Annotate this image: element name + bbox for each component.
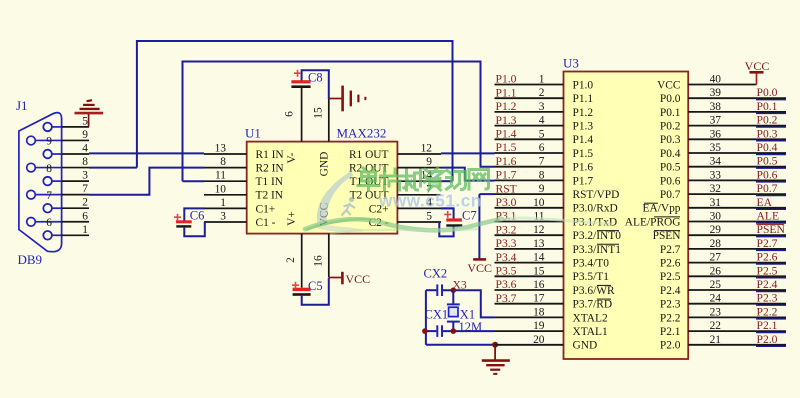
- watermark text zi: [425, 168, 444, 190]
- svg-text:30: 30: [710, 211, 722, 223]
- svg-text:22: 22: [710, 320, 722, 332]
- watermark text dan: [358, 168, 379, 190]
- svg-text:35: 35: [710, 142, 722, 154]
- svg-text:P2.3: P2.3: [660, 299, 681, 311]
- svg-text:PSEN: PSEN: [653, 230, 681, 242]
- svg-text:7: 7: [82, 183, 88, 195]
- U3 pin 2 (P1.1) stub: [495, 97, 564, 99]
- svg-text:P2.3: P2.3: [757, 292, 778, 305]
- wire DB9 pin4 row to R1 IN: [89, 152, 204, 154]
- U3 pin 28 (P2.7) stub: [688, 248, 758, 250]
- U1 pin 15 (GND) top stub: [328, 99, 330, 142]
- svg-text:P0.6: P0.6: [757, 168, 778, 181]
- svg-text:P1.4: P1.4: [496, 128, 517, 141]
- svg-text:EA/Vpp: EA/Vpp: [643, 203, 681, 215]
- capacitor CX1 plates: [436, 325, 438, 337]
- svg-text:P0.2: P0.2: [660, 121, 681, 133]
- U1 pin 4 (C2+) stub: [397, 207, 441, 209]
- U3 pin 31 (EA/Vpp) stub: [688, 207, 758, 209]
- svg-text:8: 8: [539, 169, 545, 181]
- svg-text:27: 27: [710, 252, 722, 264]
- svg-text:P1.3: P1.3: [573, 121, 594, 133]
- svg-text:36: 36: [710, 128, 722, 140]
- wire C2+ tail: [441, 207, 454, 209]
- svg-text:C6: C6: [190, 209, 205, 223]
- watermark text ji: [402, 170, 421, 190]
- svg-text:P1.7: P1.7: [573, 175, 594, 187]
- svg-text:9: 9: [539, 183, 545, 195]
- crystal X1: [452, 290, 454, 304]
- U1 pin 5 (C2 -) stub: [397, 221, 441, 223]
- U3 pin 9 (RST/VPD) stub: [495, 193, 564, 195]
- svg-text:24: 24: [710, 293, 722, 305]
- svg-text:10: 10: [215, 183, 227, 195]
- svg-text:8: 8: [46, 163, 52, 175]
- DB9 pin 7 stub: [62, 194, 89, 196]
- svg-text:P2.4: P2.4: [660, 285, 681, 297]
- svg-text:15: 15: [533, 265, 545, 277]
- svg-text:26: 26: [710, 265, 722, 277]
- svg-text:40: 40: [710, 74, 722, 86]
- DB9 pin 4 circle: [43, 150, 52, 159]
- svg-text:J1: J1: [16, 98, 28, 113]
- wire T1 IN joint: [183, 180, 205, 182]
- svg-text:5: 5: [426, 211, 432, 223]
- svg-text:31: 31: [710, 197, 722, 209]
- U3 pin 22 (P2.1) stub: [688, 330, 758, 332]
- svg-text:R2 IN: R2 IN: [256, 163, 284, 175]
- svg-text:T2 IN: T2 IN: [256, 190, 284, 202]
- svg-text:P0.2: P0.2: [757, 114, 778, 127]
- wire DB9 pin7 row to R2 IN: [89, 168, 204, 195]
- wire C6 bottom hook to C1-: [184, 222, 205, 236]
- svg-text:DB9: DB9: [18, 252, 43, 267]
- svg-text:13: 13: [533, 238, 545, 250]
- capacitor C6: [184, 208, 205, 220]
- U3 pin 4 (P1.3) stub: [495, 125, 564, 127]
- svg-text:8: 8: [220, 156, 226, 168]
- svg-text:P1.5: P1.5: [573, 148, 594, 160]
- svg-text:U1: U1: [245, 126, 261, 141]
- svg-text:CX2: CX2: [424, 267, 448, 281]
- svg-text:P2.7: P2.7: [660, 244, 681, 256]
- svg-text:P0.5: P0.5: [757, 155, 778, 168]
- DB9 pin 1 circle: [43, 231, 52, 240]
- svg-text:P2.1: P2.1: [757, 319, 778, 332]
- svg-text:2: 2: [539, 87, 545, 99]
- svg-text:V+: V+: [286, 211, 298, 226]
- svg-text:37: 37: [710, 115, 722, 127]
- svg-text:VCC: VCC: [346, 272, 371, 286]
- svg-text:7: 7: [539, 156, 545, 168]
- U3 pin 29 (PSEN) stub: [688, 234, 758, 236]
- U3 pin 24 (P2.3) stub: [688, 303, 758, 305]
- DB9 pin 8 circle: [27, 163, 36, 172]
- U3 pin 35 (P0.4) stub: [688, 152, 758, 154]
- connector J1 (DB9) outline: [19, 113, 62, 252]
- ground (top-left, DB9 pin 5): [75, 100, 104, 127]
- svg-text:T1 IN: T1 IN: [256, 176, 284, 188]
- svg-text:18: 18: [533, 306, 545, 318]
- svg-text:RST/VPD: RST/VPD: [573, 189, 620, 201]
- svg-text:25: 25: [710, 279, 722, 291]
- svg-text:P1.3: P1.3: [496, 114, 517, 127]
- watermark text wang: [469, 170, 489, 190]
- svg-text:13: 13: [215, 143, 227, 155]
- svg-text:P1.1: P1.1: [573, 93, 594, 105]
- U3 pin 26 (P2.5) stub: [688, 275, 758, 277]
- U3 pin 16 (P3.6/WR) stub: [495, 289, 564, 291]
- svg-text:9: 9: [46, 136, 52, 148]
- U3 pin 18 (XTAL2) stub: [495, 316, 564, 318]
- svg-text:9: 9: [82, 129, 88, 141]
- svg-text:RST: RST: [496, 182, 517, 195]
- svg-text:P0.7: P0.7: [660, 189, 681, 201]
- U3 pin 10 (P3.0/RxD) stub: [495, 207, 564, 209]
- svg-text:P2.0: P2.0: [757, 333, 778, 346]
- U1 pin 10 (T2 IN) stub: [204, 194, 247, 196]
- wire DB9 pin8 row to outer loop: [89, 167, 137, 169]
- DB9 pin 9 circle: [27, 136, 36, 145]
- U3 pin 34 (P0.5) stub: [688, 166, 758, 168]
- DB9 pin 4 stub: [62, 153, 89, 155]
- U3 pin 40 (VCC) stub: [688, 84, 756, 86]
- svg-text:34: 34: [710, 156, 722, 168]
- wire inner loop (T1 IN to P1.6): [183, 62, 495, 182]
- svg-text:P3.2: P3.2: [496, 223, 517, 236]
- junction dots crystal: [422, 328, 428, 334]
- svg-text:P0.5: P0.5: [660, 162, 681, 174]
- svg-text:6: 6: [82, 210, 88, 222]
- svg-text:P0.7: P0.7: [757, 182, 778, 195]
- DB9 pin 2 circle: [43, 204, 52, 213]
- svg-text:www.c51.cn: www.c51.cn: [378, 191, 482, 211]
- U3 pin 25 (P2.4) stub: [688, 289, 758, 291]
- svg-text:29: 29: [710, 224, 722, 236]
- U1 pin 9 (R2 OUT) stub: [397, 167, 441, 169]
- svg-text:R1 OUT: R1 OUT: [349, 149, 389, 161]
- svg-text:GND: GND: [319, 152, 331, 177]
- svg-text:EA: EA: [757, 196, 773, 209]
- U3 pin 37 (P0.2) stub: [688, 125, 758, 127]
- ground (below U3 GND pin): [482, 345, 510, 374]
- svg-text:28: 28: [710, 238, 722, 250]
- DB9 pin 5 stub: [62, 126, 89, 128]
- wire C8 to pin15: [302, 70, 329, 99]
- svg-text:P2.6: P2.6: [660, 258, 681, 270]
- DB9 pin 2 stub: [62, 207, 89, 209]
- wire R2 OUT to P1.7: [441, 168, 495, 181]
- wire bottom rail to GND pin: [426, 344, 495, 346]
- U3 pin 3 (P1.2) stub: [495, 111, 564, 113]
- svg-text:19: 19: [533, 320, 545, 332]
- svg-text:P3.7/RD: P3.7/RD: [573, 299, 613, 311]
- U3 pin 21 (P2.0) stub: [688, 344, 758, 346]
- svg-text:R1 IN: R1 IN: [256, 149, 284, 161]
- capacitor C7: [441, 208, 454, 218]
- svg-text:16: 16: [313, 255, 325, 267]
- svg-text:1: 1: [539, 74, 545, 86]
- watermark (decorative): [305, 168, 612, 234]
- U1 pin 12 (R1 OUT) stub: [397, 153, 441, 155]
- U3 pin 33 (P0.6) stub: [688, 179, 758, 181]
- U1 pin 7 (T2 OUT) stub: [397, 194, 440, 196]
- svg-text:12: 12: [421, 143, 433, 155]
- svg-text:1: 1: [220, 197, 226, 209]
- svg-text:7: 7: [46, 190, 52, 202]
- U3 pin 19 (XTAL1) stub: [495, 330, 564, 332]
- svg-text:GND: GND: [573, 340, 598, 352]
- svg-text:P2.5: P2.5: [757, 264, 778, 277]
- U3 pin 13 (P3.3/INT1) stub: [495, 248, 564, 250]
- svg-text:10: 10: [533, 197, 545, 209]
- U3 pin 23 (P2.2) stub: [688, 316, 758, 318]
- svg-text:P3.7: P3.7: [496, 292, 517, 305]
- ground (right of U1 pin 15): [329, 86, 366, 112]
- svg-text:15: 15: [313, 107, 325, 119]
- svg-text:3: 3: [82, 170, 88, 182]
- U3 pin 17 (P3.7/RD) stub: [495, 303, 564, 305]
- U3 pin 12 (P3.2/INT0) stub: [495, 234, 564, 236]
- svg-text:P1.6: P1.6: [496, 155, 517, 168]
- svg-text:P2.0: P2.0: [660, 340, 681, 352]
- svg-text:P3.5: P3.5: [496, 265, 517, 278]
- wire outer loop (DB9 pin8 to T1 OUT): [137, 41, 453, 181]
- svg-text:11: 11: [215, 170, 226, 182]
- svg-text:MAX232: MAX232: [337, 126, 387, 141]
- wire T1 OUT tail: [441, 180, 453, 182]
- svg-text:U3: U3: [563, 56, 579, 71]
- svg-text:CX1: CX1: [425, 308, 449, 322]
- svg-text:3: 3: [539, 101, 545, 113]
- svg-text:P1.0: P1.0: [496, 73, 517, 86]
- svg-text:VCC: VCC: [467, 261, 492, 275]
- svg-text:6: 6: [539, 142, 545, 154]
- svg-text:C7: C7: [462, 209, 477, 223]
- overline on PSEN net label: [757, 223, 785, 225]
- DB9 pin 1 stub: [62, 234, 89, 236]
- svg-text:14: 14: [533, 252, 545, 264]
- svg-text:P0.1: P0.1: [757, 100, 778, 113]
- wire C7 bottom hook to C2-: [439, 222, 453, 236]
- svg-text:P0.4: P0.4: [660, 148, 681, 160]
- svg-text:ALE: ALE: [757, 210, 780, 223]
- svg-text:P0.0: P0.0: [757, 86, 778, 99]
- overlines on active-low pin names: [597, 203, 680, 299]
- svg-text:17: 17: [533, 293, 545, 305]
- svg-text:33: 33: [710, 169, 722, 181]
- svg-text:21: 21: [710, 334, 722, 346]
- wire R1 OUT to P1.5: [441, 152, 495, 154]
- U1 pin 1 (C1+) stub: [204, 207, 247, 209]
- svg-text:8: 8: [82, 156, 88, 168]
- svg-text:C5: C5: [308, 279, 323, 293]
- U3 pin 27 (P2.6) stub: [688, 262, 758, 264]
- U1 pin 2 (V+) bottom stub: [301, 234, 303, 288]
- power VCC (RST pulldown): [473, 258, 486, 261]
- svg-text:20: 20: [533, 334, 545, 346]
- svg-text:P1.1: P1.1: [496, 86, 517, 99]
- svg-text:P3.4: P3.4: [496, 251, 517, 264]
- U1 pin 3 (C1 -) stub: [204, 221, 247, 223]
- svg-text:9: 9: [426, 156, 432, 168]
- DB9 pin 3 stub: [62, 180, 89, 182]
- DB9 pin 8 stub: [62, 167, 89, 169]
- svg-text:ALE/PROG: ALE/PROG: [625, 216, 681, 228]
- U3 pin 14 (P3.4/T0) stub: [495, 262, 564, 264]
- svg-text:16: 16: [533, 279, 545, 291]
- svg-text:P1.6: P1.6: [573, 162, 594, 174]
- DB9 pin 5 circle: [43, 123, 52, 132]
- U3 pin 1 (P1.0) stub: [495, 84, 564, 86]
- svg-text:P2.6: P2.6: [757, 251, 778, 264]
- IC U3 (8051) body: [564, 72, 689, 360]
- U1 pin 6 (V-) top stub: [301, 88, 303, 142]
- svg-text:32: 32: [710, 183, 722, 195]
- U1 pin 16 (VCC) bottom stub: [328, 234, 330, 278]
- U1 pin 11 (T1 IN) stub: [204, 180, 247, 182]
- svg-text:PSEN: PSEN: [757, 223, 786, 236]
- svg-text:5: 5: [82, 115, 88, 127]
- svg-text:1: 1: [82, 224, 88, 236]
- DB9 pin 6 stub: [62, 221, 89, 223]
- svg-text:P3.5/T1: P3.5/T1: [573, 271, 610, 283]
- wire C5 to VCC node: [302, 278, 329, 305]
- U1 pin 8 (R2 IN) stub: [204, 167, 247, 169]
- wire XTAL2 node: [426, 289, 437, 291]
- DB9 pin 3 circle: [43, 177, 52, 186]
- U1 pin 13 (R1 IN) stub: [204, 153, 247, 155]
- svg-text:P3.4/T0: P3.4/T0: [573, 258, 610, 270]
- svg-text:5: 5: [539, 128, 545, 140]
- capacitor CX2 plates: [436, 284, 438, 296]
- svg-text:11: 11: [534, 211, 545, 223]
- svg-text:P3.3/INT1: P3.3/INT1: [573, 244, 622, 256]
- wire RST to VCC: [479, 193, 494, 195]
- svg-text:4: 4: [539, 115, 545, 127]
- svg-text:C1 -: C1 -: [256, 217, 276, 229]
- watermark text pian: [381, 168, 401, 190]
- svg-text:C1+: C1+: [256, 203, 276, 215]
- watermark text xun: [447, 171, 466, 190]
- U3 pin 5 (P1.4) stub: [495, 138, 564, 140]
- U3 pin 7 (P1.6) stub: [495, 166, 564, 168]
- U3 pin 11 (P3.1/TxD) stub: [495, 221, 564, 223]
- junction dot X3: [451, 287, 457, 293]
- DB9 pin 6 circle: [27, 218, 36, 227]
- svg-text:6: 6: [284, 111, 296, 117]
- svg-text:P2.5: P2.5: [660, 271, 681, 283]
- svg-text:P0.6: P0.6: [660, 175, 681, 187]
- svg-text:P3.2/INT0: P3.2/INT0: [573, 230, 622, 242]
- svg-text:P2.1: P2.1: [660, 326, 681, 338]
- svg-text:2: 2: [285, 257, 297, 263]
- svg-text:P2.2: P2.2: [660, 312, 681, 324]
- U3 pin 30 (ALE/PROG) stub: [688, 221, 758, 223]
- svg-text:P2.2: P2.2: [757, 305, 778, 318]
- U3 pin 15 (P3.5/T1) stub: [495, 275, 564, 277]
- svg-text:P3.3: P3.3: [496, 237, 517, 250]
- svg-text:C8: C8: [308, 71, 323, 85]
- svg-text:P0.1: P0.1: [660, 107, 681, 119]
- svg-text:P1.5: P1.5: [496, 141, 517, 154]
- U3 pin 6 (P1.5) stub: [495, 152, 564, 154]
- wire XTAL1 row: [425, 330, 437, 332]
- svg-text:P1.0: P1.0: [573, 79, 594, 91]
- svg-text:P0.3: P0.3: [757, 127, 778, 140]
- svg-text:P3.0: P3.0: [496, 196, 517, 209]
- svg-text:39: 39: [710, 87, 722, 99]
- wire left rail: [425, 290, 427, 345]
- svg-text:V-: V-: [286, 152, 298, 163]
- U3 pin 32 (P0.7) stub: [688, 193, 758, 195]
- svg-text:6: 6: [46, 217, 52, 229]
- svg-text:VCC: VCC: [745, 59, 770, 73]
- svg-text:4: 4: [82, 143, 88, 155]
- U3 pin 38 (P0.1) stub: [688, 111, 758, 113]
- svg-text:P0.0: P0.0: [660, 93, 681, 105]
- svg-text:P1.2: P1.2: [496, 100, 517, 113]
- power VCC (U1 pin16): [329, 272, 343, 285]
- svg-text:P2.7: P2.7: [757, 237, 778, 250]
- U3 pin 39 (P0.0) stub: [688, 97, 758, 99]
- svg-text:VCC: VCC: [657, 79, 680, 91]
- svg-text:P0.4: P0.4: [757, 141, 778, 154]
- svg-text:XTAL2: XTAL2: [573, 312, 608, 324]
- svg-text:P1.2: P1.2: [573, 107, 594, 119]
- U1 pin 14 (T1 OUT) stub: [397, 180, 441, 182]
- power VCC (U3 pin 40): [756, 72, 758, 84]
- DB9 pin 7 circle: [27, 190, 36, 199]
- DB9 pin 9 stub: [62, 139, 89, 141]
- svg-text:2: 2: [82, 197, 88, 209]
- U3 pin 8 (P1.7) stub: [495, 179, 564, 181]
- svg-text:P3.0/RxD: P3.0/RxD: [573, 203, 618, 215]
- svg-text:12: 12: [533, 224, 545, 236]
- svg-text:3: 3: [220, 211, 226, 223]
- svg-text:P0.3: P0.3: [660, 134, 681, 146]
- svg-text:P3.6/WR: P3.6/WR: [573, 285, 615, 297]
- svg-text:XTAL1: XTAL1: [573, 326, 608, 338]
- capacitor C5: [293, 288, 311, 291]
- svg-text:23: 23: [710, 306, 722, 318]
- svg-text:38: 38: [710, 101, 722, 113]
- svg-text:P1.4: P1.4: [573, 134, 594, 146]
- svg-text:P3.6: P3.6: [496, 278, 517, 291]
- op-amp U1 MAX232 body: [247, 142, 398, 234]
- U3 pin 20 (GND) stub: [495, 344, 564, 346]
- svg-text:P1.7: P1.7: [496, 169, 517, 182]
- U3 pin 36 (P0.3) stub: [688, 138, 758, 140]
- capacitor C8: [291, 80, 310, 83]
- svg-text:P2.4: P2.4: [757, 278, 778, 291]
